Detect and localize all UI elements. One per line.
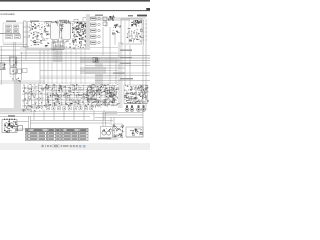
svg-text:Continuation: Continuation	[0, 12, 15, 16]
